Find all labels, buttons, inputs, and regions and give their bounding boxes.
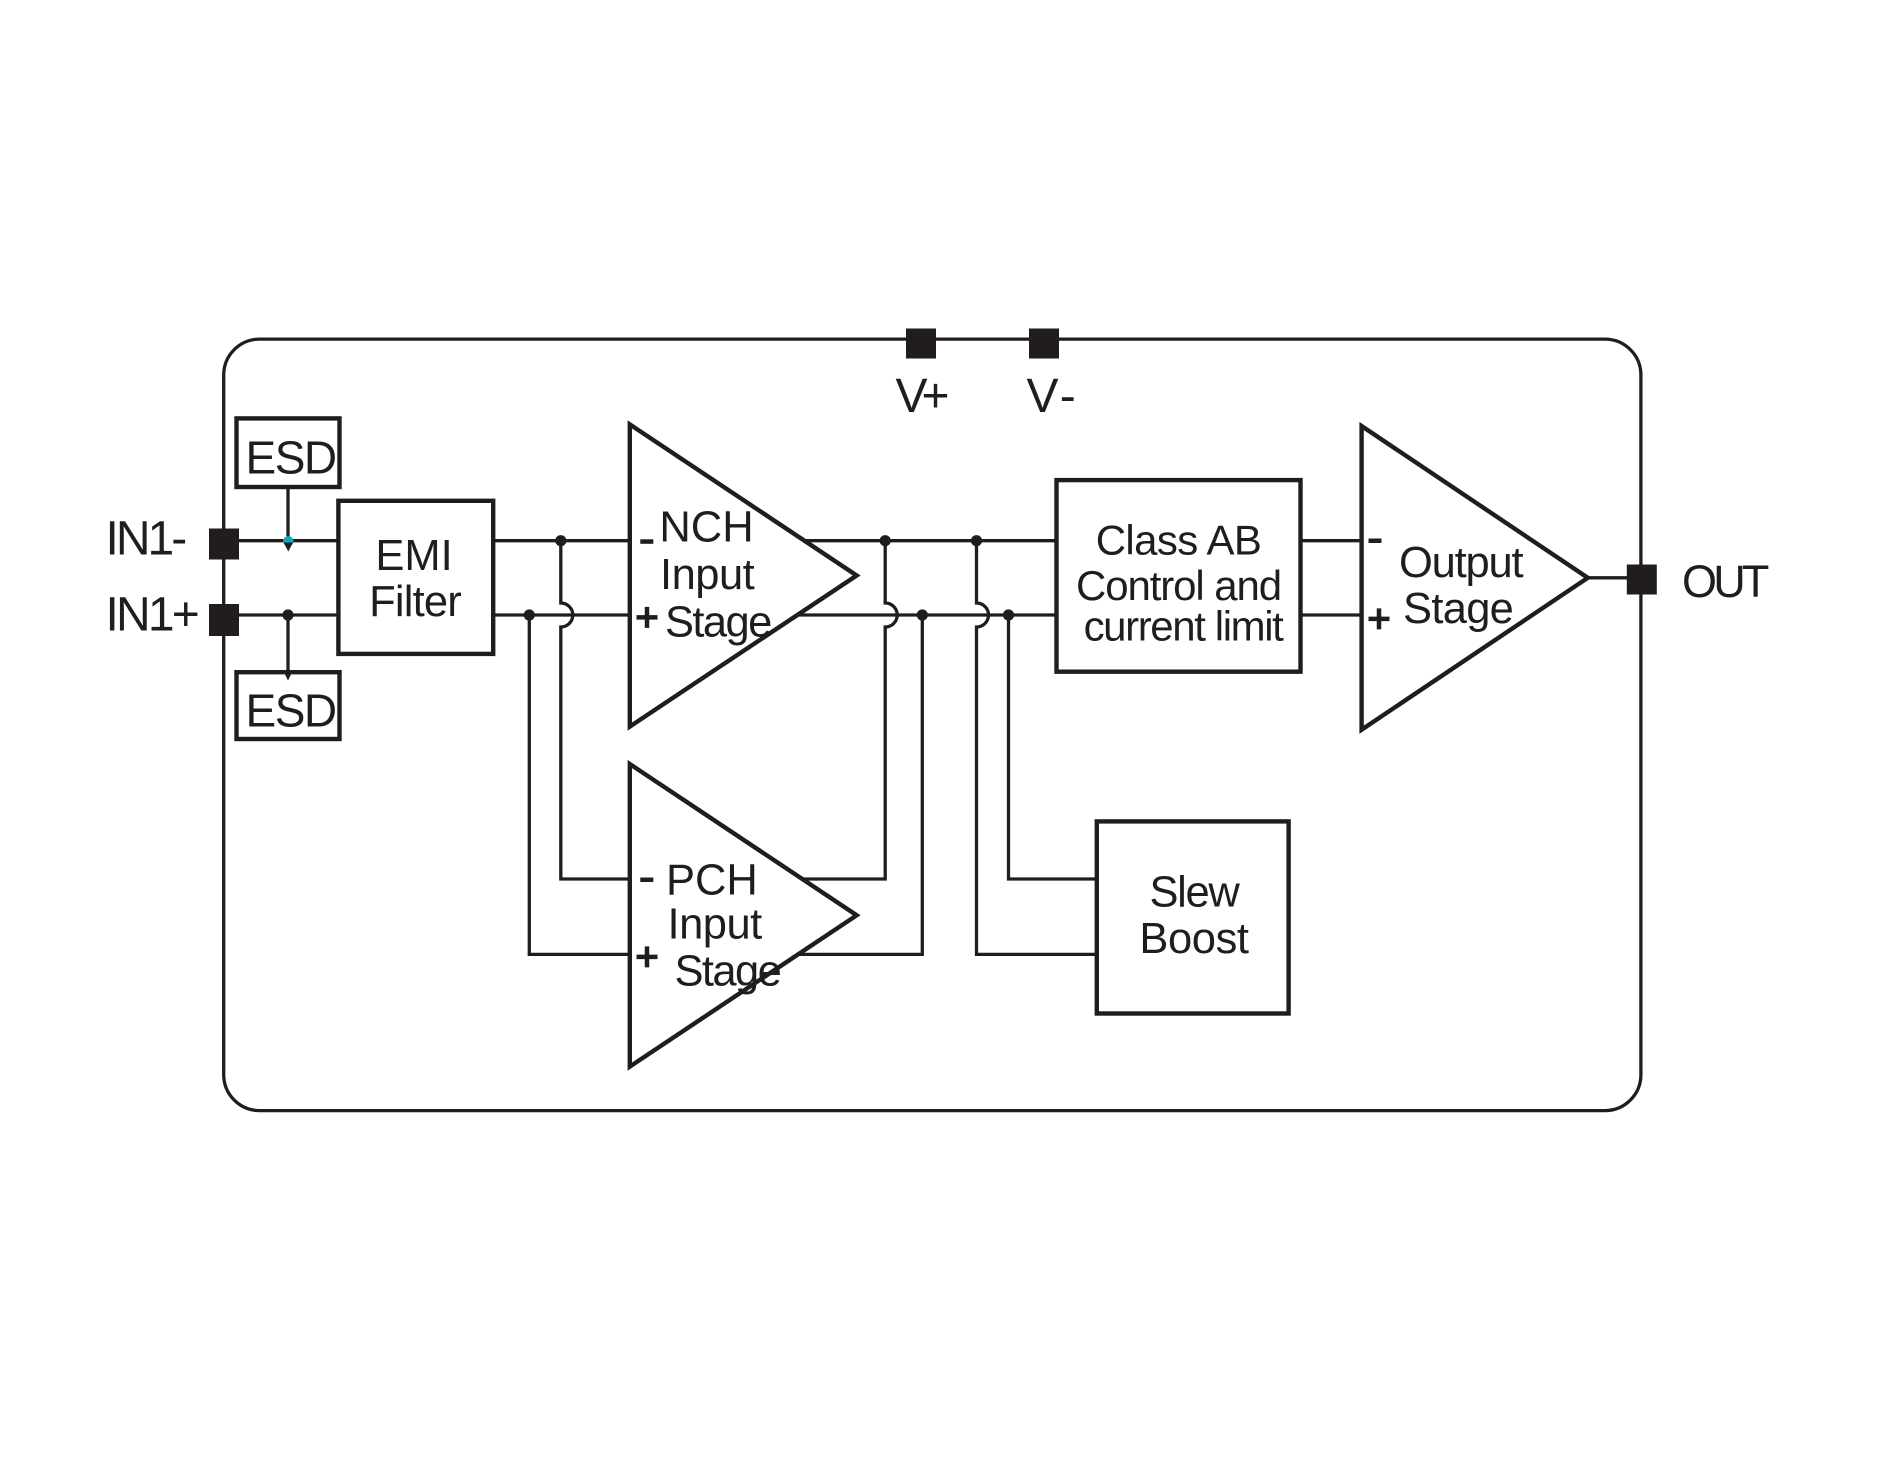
svg-text:NCH: NCH: [659, 504, 753, 552]
pin IN1+: [209, 604, 239, 636]
svg-text:Stage: Stage: [1403, 585, 1513, 633]
node out plus tap 2: [1003, 609, 1014, 620]
node out minus tap 2: [971, 535, 982, 546]
pin OUT: [1627, 565, 1657, 595]
svg-text:Slew: Slew: [1149, 869, 1240, 917]
wire minus rail to slew boost (with hop): [977, 541, 1097, 955]
Slew boost box: [1097, 821, 1289, 1013]
svg-text:OUT: OUT: [1682, 556, 1769, 607]
node out plus tap 1: [917, 609, 928, 620]
label output minus sign: [1369, 539, 1382, 544]
op-amp NCH input stage: [630, 424, 857, 726]
wire EMI to NCH minus: [493, 539, 630, 542]
label PCH minus sign: [640, 878, 653, 883]
wire output to OUT pin: [1588, 576, 1627, 579]
op-amp PCH input stage: [630, 764, 857, 1067]
wire NCH out minus to Class AB: [805, 539, 1057, 542]
wire Class AB to output plus: [1301, 613, 1362, 616]
ESD box bottom: [237, 672, 340, 739]
pin IN1-: [209, 529, 239, 560]
svg-text:current limit: current limit: [1084, 603, 1285, 650]
wire Class AB to output minus: [1301, 539, 1362, 542]
wire tap to PCH plus: [529, 615, 630, 954]
node IN1+ ESD junction: [282, 609, 293, 620]
label PCH plus sign: [637, 946, 658, 967]
svg-text:PCH: PCH: [666, 856, 758, 904]
wire IN1- to EMI filter: [239, 539, 338, 542]
svg-text:Boost: Boost: [1139, 915, 1249, 963]
op-amp output stage: [1362, 426, 1588, 730]
svg-text:Input: Input: [668, 901, 763, 949]
wire ESD bottom stub: [286, 615, 289, 674]
label NCH minus sign: [640, 539, 653, 544]
wire IN1+ to EMI filter: [239, 613, 338, 616]
svg-text:ESD: ESD: [246, 432, 336, 484]
label NCH plus sign: [637, 607, 658, 628]
node NCH plus tap: [524, 609, 535, 620]
svg-text:Input: Input: [660, 551, 755, 599]
ESD box top: [237, 418, 340, 487]
label output plus sign: [1369, 608, 1390, 629]
wire minus rail to PCH upper output (with hop): [802, 541, 897, 879]
svg-text:V+: V+: [896, 370, 948, 423]
svg-text:EMI: EMI: [375, 532, 452, 580]
svg-text:Stage: Stage: [675, 948, 781, 996]
EMI filter box: [338, 501, 493, 654]
wire NCH out plus to Class AB: [797, 613, 1056, 616]
wire tap to PCH minus (with hop): [561, 541, 630, 879]
svg-text:Class AB: Class AB: [1096, 517, 1262, 564]
wire plus rail to slew boost: [1009, 615, 1097, 879]
svg-text:Stage: Stage: [665, 599, 771, 647]
wire EMI to NCH plus: [493, 613, 630, 616]
device boundary (rounded border): [224, 339, 1641, 1111]
svg-text:IN1+: IN1+: [106, 588, 198, 641]
pin V+: [906, 329, 936, 359]
wire ESD top stub: [286, 486, 289, 541]
node out minus tap 1: [880, 535, 891, 546]
svg-text:Output: Output: [1399, 539, 1523, 587]
svg-text:Filter: Filter: [369, 578, 461, 626]
wire plus rail to PCH lower output: [798, 615, 922, 954]
pin V-: [1029, 329, 1059, 359]
Class AB control box: [1057, 480, 1301, 672]
svg-text:IN1-: IN1-: [106, 513, 186, 566]
node NCH minus tap: [555, 535, 566, 546]
svg-text:V-: V-: [1027, 370, 1080, 423]
node IN1- ESD junction (teal): [283, 536, 293, 546]
svg-text:ESD: ESD: [246, 685, 336, 737]
